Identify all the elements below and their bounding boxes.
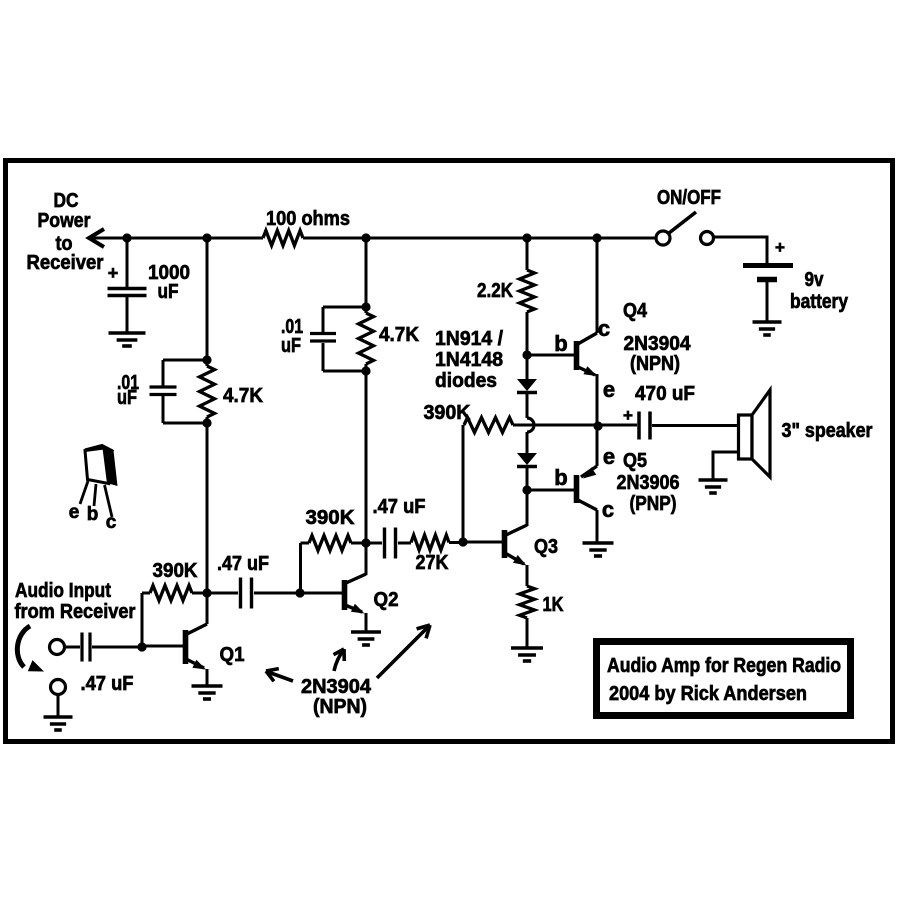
junction node A1 xyxy=(202,355,211,364)
svg-text:Q1: Q1 xyxy=(220,644,245,666)
svg-text:b: b xyxy=(554,465,567,490)
wire C.47A to Q1 base node xyxy=(92,646,142,649)
wire D1 to crossover hop xyxy=(526,394,529,418)
wire Q2 collector up xyxy=(365,543,368,575)
wire D2 to node D2 (Q5 base) xyxy=(526,468,529,490)
svg-text:2N3904: 2N3904 xyxy=(301,676,372,698)
junction node D2 (Q5 base) xyxy=(522,485,531,494)
svg-text:.47 uF: .47 uF xyxy=(373,496,426,518)
junction Q2 base node xyxy=(295,588,304,597)
annotation arrow to Q2 xyxy=(334,651,343,671)
input terminal hot xyxy=(50,640,65,655)
wire hop to diode D2 xyxy=(526,432,529,453)
wire rail down to node B1 xyxy=(365,238,368,307)
annotation arrow to Q1 xyxy=(268,672,293,681)
wire node B2 down to Q2 collector node xyxy=(365,371,368,543)
svg-text:c: c xyxy=(106,512,117,533)
wire C470 to speaker xyxy=(652,424,738,427)
arrow to DC power output xyxy=(89,229,104,247)
wire Q2 emitter to ground xyxy=(365,613,368,632)
svg-text:1N914 /: 1N914 / xyxy=(435,328,503,350)
wire Q1 emitter to ground xyxy=(206,669,209,686)
transistor Q1 2N3904 xyxy=(183,630,189,664)
transistor Q3 2N3904 xyxy=(502,530,508,558)
resistor 1K xyxy=(520,586,535,618)
svg-text:Q3: Q3 xyxy=(534,536,558,558)
resistor 390K feedback xyxy=(464,418,513,433)
svg-text:e: e xyxy=(69,502,80,523)
transistor Q4 2N3904 xyxy=(576,333,597,345)
wire Q1 node to C.47B xyxy=(207,592,238,595)
wire .01uF-A left drop xyxy=(162,360,165,386)
svg-text:Power: Power xyxy=(38,210,91,232)
svg-text:2N3904: 2N3904 xyxy=(624,333,692,355)
svg-text:b: b xyxy=(554,331,567,356)
svg-text:uF: uF xyxy=(158,281,179,303)
wire to 390K B xyxy=(301,542,310,545)
wire Q1 collector up xyxy=(206,593,209,624)
diode D2 1N4148 xyxy=(517,453,537,465)
junction node D1 (Q4 base) xyxy=(522,350,531,359)
svg-text:470 uF: 470 uF xyxy=(635,383,695,405)
svg-text:+: + xyxy=(775,238,785,257)
capacitor 470 uF xyxy=(637,412,641,440)
junction rail/4.7K-B xyxy=(361,233,370,242)
switch ON/OFF xyxy=(656,231,670,245)
svg-text:battery: battery xyxy=(790,291,849,313)
junction node A2 xyxy=(202,418,211,427)
resistor 390K bias Q2 xyxy=(309,536,351,551)
svg-text:4.7K: 4.7K xyxy=(223,385,264,407)
svg-text:Q5: Q5 xyxy=(623,450,647,472)
wire node A2 down to Q1 collector node xyxy=(206,423,209,593)
capacitor .01 uF (A) xyxy=(150,385,177,388)
svg-text:.47 uF: .47 uF xyxy=(81,673,134,695)
resistor 2.2K xyxy=(520,270,535,312)
wire 1K to ground xyxy=(526,618,529,648)
svg-text:1K: 1K xyxy=(543,594,564,616)
svg-text:DC: DC xyxy=(54,190,79,212)
battery 9v (BT1) xyxy=(743,263,793,268)
junction Q2 collector node xyxy=(361,538,370,547)
ground Q1 xyxy=(192,684,223,688)
svg-text:(NPN): (NPN) xyxy=(630,353,680,375)
ground C1 xyxy=(109,331,146,335)
wire .01uF-A bottom xyxy=(162,396,165,423)
svg-text:2004 by Rick Andersen: 2004 by Rick Andersen xyxy=(609,683,807,705)
svg-text:3" speaker: 3" speaker xyxy=(782,420,873,442)
ground Q2 xyxy=(351,630,381,634)
input terminal ground leg xyxy=(51,680,66,695)
wire C.47B to Q2 base node xyxy=(254,592,300,595)
wire to 390K A xyxy=(142,592,150,595)
svg-text:e: e xyxy=(603,377,615,402)
resistor 4.7K (A) xyxy=(200,366,215,417)
wire output node to C470 xyxy=(598,424,637,427)
wire 2.2K to node D1 xyxy=(526,312,529,355)
transistor Q2 2N3904 xyxy=(342,580,348,610)
svg-text:9v: 9v xyxy=(805,269,825,291)
svg-text:uF: uF xyxy=(117,387,137,409)
wire speaker to ground xyxy=(713,452,738,480)
junction rail/2.2K xyxy=(522,233,531,242)
wire Q4 emitter to output node xyxy=(596,374,599,425)
wire Q5 collector to ground xyxy=(596,510,599,542)
svg-text:Audio Input: Audio Input xyxy=(15,580,111,602)
capacitor .47 uF C xyxy=(383,528,386,559)
junction Q3 base node xyxy=(458,537,467,546)
junction rail/4.7K-A xyxy=(202,233,211,242)
wire Q2 base node up xyxy=(299,543,302,593)
wire rail to C1 xyxy=(126,238,129,287)
capacitor .47 uF input xyxy=(80,633,83,662)
svg-text:Receiver: Receiver xyxy=(27,252,104,274)
wire Q3 base node up xyxy=(462,425,465,542)
svg-text:(PNP): (PNP) xyxy=(630,493,677,515)
svg-text:Audio Amp for Regen Radio: Audio Amp for Regen Radio xyxy=(607,655,841,677)
junction node B1 xyxy=(361,302,370,311)
wire 27K to Q3 base node xyxy=(449,541,463,544)
svg-text:2N3906: 2N3906 xyxy=(617,472,680,494)
ground Q5 xyxy=(583,541,614,545)
ground Q3 xyxy=(511,646,543,650)
resistor 100 ohms xyxy=(263,231,303,246)
svg-text:b: b xyxy=(87,504,99,525)
junction rail/Q4 collector xyxy=(592,233,601,242)
svg-text:(NPN): (NPN) xyxy=(313,696,367,718)
wire battery to ground xyxy=(766,282,769,322)
wire C1 to ground xyxy=(126,297,129,333)
wire Q1 base node up xyxy=(141,593,144,647)
svg-text:Q2: Q2 xyxy=(374,589,399,611)
diode D1 1N914 xyxy=(517,379,537,391)
svg-text:ON/OFF: ON/OFF xyxy=(657,187,721,209)
capacitor 1000 uF (C1) xyxy=(108,287,147,291)
wire Q2 node to C.47C xyxy=(366,542,382,545)
svg-text:27K: 27K xyxy=(416,552,449,574)
svg-text:Q4: Q4 xyxy=(623,300,648,322)
svg-text:c: c xyxy=(598,316,610,341)
wire .01uF-B left drop xyxy=(322,307,325,332)
wire C.47C to 27K xyxy=(398,542,411,545)
svg-text:2.2K: 2.2K xyxy=(477,280,513,302)
capacitor .01 uF (B) xyxy=(310,332,336,335)
svg-text:4.7K: 4.7K xyxy=(379,324,420,346)
wire .01uF-B bottom xyxy=(322,343,325,371)
svg-text:diodes: diodes xyxy=(435,370,497,392)
ground speaker xyxy=(699,478,728,482)
svg-text:390K: 390K xyxy=(424,402,472,424)
speaker 3 inch xyxy=(739,415,753,459)
ground battery xyxy=(753,320,782,324)
svg-text:c: c xyxy=(602,497,614,522)
junction node B2 xyxy=(361,366,370,375)
junction output node xyxy=(593,421,602,430)
wire node D1 to diode D1 xyxy=(526,355,529,379)
wire rail down to node A1 xyxy=(206,238,209,360)
svg-text:e: e xyxy=(603,444,615,469)
resistor 390K bias Q1 xyxy=(150,586,192,601)
wire hop over feedback wire xyxy=(527,418,534,432)
title box xyxy=(597,642,851,716)
curved annotation arrow input xyxy=(17,626,30,667)
wire .01uF-B top xyxy=(323,306,366,309)
svg-text:uF: uF xyxy=(281,335,301,357)
svg-text:390K: 390K xyxy=(153,560,199,582)
wire .01uF-A top xyxy=(163,359,207,362)
svg-text:+: + xyxy=(623,406,633,425)
capacitor .47 uF B xyxy=(239,578,242,609)
svg-text:390K: 390K xyxy=(306,507,356,529)
svg-text:100 ohms: 100 ohms xyxy=(266,208,350,230)
wire switch to battery xyxy=(714,237,767,263)
wire Q3 collector up to node D2 xyxy=(526,490,529,526)
transistor Q5 2N3906 xyxy=(596,426,599,466)
annotation arrow to Q3 xyxy=(377,626,429,678)
resistor 27K xyxy=(411,535,449,550)
node V+ rail wire xyxy=(89,237,263,240)
wire 390K to output node xyxy=(513,424,594,427)
TO-92 package drawing xyxy=(85,446,114,452)
svg-text:+: + xyxy=(108,263,119,283)
wire Q3 emitter down xyxy=(526,565,529,586)
junction Q1 base node xyxy=(137,642,146,651)
svg-text:1N4148: 1N4148 xyxy=(435,349,503,371)
wire terminal2 to ground xyxy=(57,695,60,717)
wire rail to Q4 collector xyxy=(596,238,599,333)
wire terminal to C.47A xyxy=(65,646,80,649)
junction Q1 collector node xyxy=(202,588,211,597)
svg-text:from Receiver: from Receiver xyxy=(15,601,136,623)
junction rail/1000uF xyxy=(122,233,131,242)
wire rail down to 2.2K xyxy=(526,238,529,270)
resistor 4.7K (B) xyxy=(359,313,374,364)
ground input xyxy=(44,715,73,719)
svg-text:.47 uF: .47 uF xyxy=(217,553,269,575)
